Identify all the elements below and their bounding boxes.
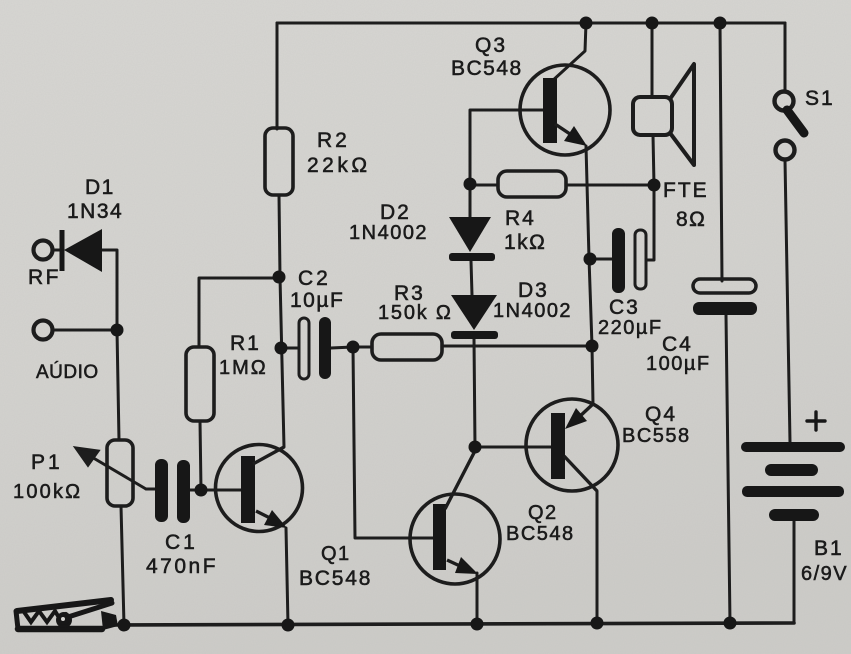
wire AUDIO node down to P1 top [117, 330, 119, 440]
wire rail corner down to S1 [784, 23, 787, 92]
svg-text:C2: C2 [298, 267, 331, 290]
battery B1 plate 3 (long) [742, 486, 844, 497]
battery B1 plate 4 (short, -) [769, 509, 819, 521]
terminal AUDIO [34, 321, 53, 340]
resistor R3 [372, 334, 442, 360]
svg-text:1N34: 1N34 [67, 200, 123, 223]
wire rail down to C4 top plate [720, 23, 722, 281]
Q3 emitter arrow [564, 126, 587, 146]
battery plus sign [807, 412, 825, 430]
svg-text:AÚDIO: AÚDIO [36, 361, 99, 383]
svg-text:1MΩ: 1MΩ [219, 357, 268, 379]
battery B1 plate 1 (long, +) [741, 442, 845, 452]
wire Q1 emitter down to ground [286, 528, 288, 625]
speaker FTE cone [670, 64, 694, 165]
Q4 emitter lead [578, 404, 593, 418]
node R2/R1/C2/Q1-collector [273, 271, 286, 284]
svg-text:D2: D2 [380, 201, 411, 224]
wire R1 bottom to C1/Q1-base node [200, 421, 201, 490]
node AUDIO/D1 [111, 324, 124, 337]
wire D2 cathode to D3 anode [471, 261, 472, 295]
svg-text:470nF: 470nF [146, 555, 218, 578]
diode D2 triangle [449, 217, 491, 252]
svg-text:Q4: Q4 [645, 403, 677, 426]
wire rail to speaker top [651, 23, 654, 97]
svg-text:100µF: 100µF [646, 353, 711, 375]
alligator clip tail to ground rail [101, 611, 118, 630]
svg-text:BC548: BC548 [451, 57, 523, 80]
svg-text:R2: R2 [317, 129, 350, 152]
alligator clip lower jaw [18, 626, 102, 633]
wire C3 right plate up to speaker node [646, 185, 654, 260]
svg-text:1N4002: 1N4002 [493, 300, 572, 322]
alligator clip upper jaw [17, 600, 111, 611]
wire Q3 emitter column down to Q4 emitter [586, 146, 593, 404]
Q2 body circle [410, 494, 500, 584]
wire D1 anode right and down to AUDIO node [102, 250, 117, 330]
wire S1 bottom to battery plus [785, 160, 790, 442]
Q3 emitter lead [555, 124, 570, 134]
svg-text:BC558: BC558 [622, 425, 691, 447]
wire node to R4 left lead [470, 184, 498, 187]
svg-text:22kΩ: 22kΩ [307, 154, 371, 177]
wire Q3 collector to rail [551, 23, 586, 82]
svg-text:D3: D3 [518, 279, 549, 302]
transistor Q1 [216, 445, 303, 532]
wire node R2-bottom to R1 top [199, 278, 279, 347]
svg-text:Q3: Q3 [475, 34, 507, 57]
ground node Q2 [471, 618, 484, 631]
svg-text:R1: R1 [230, 332, 261, 355]
svg-text:RF: RF [28, 266, 61, 289]
svg-text:S1: S1 [805, 87, 835, 110]
wire node down and right to Q2 base [353, 347, 433, 538]
svg-text:C1: C1 [165, 531, 198, 554]
svg-text:6/9V: 6/9V [801, 563, 848, 585]
wire Q4 collector down to ground [596, 491, 599, 623]
Q2 emitter arrow [455, 557, 478, 574]
alligator clip handle [68, 603, 112, 617]
wire P1 bottom to ground [121, 506, 124, 625]
wire speaker bottom to node [653, 135, 654, 185]
switch S1 top contact [775, 92, 794, 111]
wire stub node to C3 left plate [590, 258, 612, 261]
diode D1 cathode bar [60, 230, 65, 271]
Q4 body circle [526, 399, 618, 491]
wire battery minus to ground rail [793, 521, 796, 623]
wire node to Q1 base [201, 489, 241, 492]
wire RF terminal to D1 cathode [53, 249, 60, 252]
wire C1 right plate to node [188, 489, 201, 492]
node R3/emitter column [586, 340, 599, 353]
Q4 collector lead [564, 456, 597, 491]
Q2 emitter lead [447, 560, 460, 566]
resistor R2 [265, 128, 293, 195]
resistor R4 [498, 171, 566, 197]
wire Q3 base to D2/R4 column [470, 110, 543, 184]
wire D3 cathode down to Q4-base node [474, 339, 475, 447]
node rail/C4 [714, 17, 727, 30]
wire Q2 emitter down to ground [476, 573, 479, 624]
svg-text:10µF: 10µF [290, 289, 344, 312]
svg-text:R4: R4 [505, 207, 536, 230]
transistor Q4 (PNP) [526, 399, 618, 491]
diode D3 cathode bar [451, 331, 498, 339]
svg-text:1N4002: 1N4002 [349, 222, 428, 244]
potentiometer P1 body [107, 440, 133, 506]
capacitor C1 right plate [177, 460, 190, 523]
wire rail left corner down to R2 top [276, 23, 279, 129]
wire P1 wiper tail to C1 left plate [146, 488, 156, 491]
ground rail [112, 623, 794, 625]
node R4/speaker/C3 [648, 179, 661, 192]
capacitor C3 right plate (outline) [635, 230, 646, 289]
svg-text:P1: P1 [31, 451, 63, 474]
alligator clip hinge [58, 614, 71, 627]
svg-text:BC548: BC548 [299, 567, 372, 590]
svg-text:100kΩ: 100kΩ [13, 481, 82, 503]
wire node to D2 anode [469, 184, 472, 217]
capacitor C4 bottom plate (solid) [693, 302, 757, 315]
battery B1 plate 2 (short) [765, 464, 818, 476]
diode D2 cathode bar [449, 253, 495, 261]
node C2/R3/Q2-base [347, 341, 360, 354]
alligator clip nose [16, 611, 18, 629]
svg-text:FTE: FTE [663, 179, 709, 202]
wire stub node to C2 left plate [281, 347, 299, 350]
terminal RF [34, 241, 53, 260]
Q4 emitter arrow (PNP, into base) [565, 408, 587, 429]
Q1 emitter lead [256, 511, 270, 518]
node C3/emitter column [584, 253, 597, 266]
node rail/Q3 collector [580, 17, 593, 30]
wire R3 right lead to emitter-column node [442, 345, 592, 348]
wire C4 bottom plate to ground rail [726, 315, 730, 623]
speaker FTE frame [633, 97, 672, 135]
capacitor C1 left plate [155, 459, 168, 522]
wire C2 right plate to R3 node [331, 347, 353, 348]
Q2 collector lead [445, 447, 477, 509]
switch S1 bottom contact [776, 141, 795, 160]
svg-text:150k Ω: 150k Ω [378, 302, 453, 324]
svg-text:220µF: 220µF [598, 317, 663, 339]
transistor Q3 [520, 65, 610, 155]
ground node P1 [118, 619, 131, 632]
capacitor C2 right plate (solid) [319, 317, 331, 379]
wire AUDIO terminal to node [53, 329, 117, 332]
Q1 emitter arrow [264, 510, 287, 528]
Q1 base bar [241, 456, 255, 523]
node rail/speaker [646, 17, 659, 30]
diode D3 triangle [451, 295, 497, 330]
wire R4 right lead to speaker node [566, 184, 654, 187]
wire top supply rail [277, 22, 785, 25]
svg-text:B1: B1 [814, 537, 844, 560]
ground node C4 [724, 617, 737, 630]
svg-text:8Ω: 8Ω [676, 208, 706, 231]
switch S1 lever [787, 110, 804, 133]
node Q3-base/D2/R4 [464, 178, 477, 191]
ground node Q1 [282, 619, 295, 632]
Q1 collector lead [253, 447, 284, 464]
wire R2 bottom to Q1 collector column [279, 195, 284, 447]
alligator clip teeth [24, 611, 66, 622]
svg-text:BC548: BC548 [506, 523, 575, 545]
capacitor C2 left plate (outline) [299, 318, 309, 379]
ground node Q4 [591, 617, 604, 630]
Q3 body circle [520, 65, 610, 155]
svg-text:1kΩ: 1kΩ [504, 231, 546, 254]
svg-text:D1: D1 [85, 176, 115, 199]
diode D1 triangle [64, 229, 102, 272]
potentiometer P1 wiper arrow [76, 448, 146, 489]
wire node to R3 left lead [353, 346, 372, 349]
svg-text:Q2: Q2 [528, 502, 558, 524]
svg-text:Q1: Q1 [321, 543, 351, 565]
resistor R1 [186, 347, 214, 421]
node R1/C1/Q1-base [195, 484, 208, 497]
svg-text:C3: C3 [609, 296, 640, 319]
node C2 left stub [275, 342, 288, 355]
Q3 base bar [543, 78, 557, 143]
Q4 base bar [551, 413, 565, 479]
wire node to Q4 base [475, 446, 551, 449]
Q2 base bar [433, 504, 446, 570]
capacitor C3 left plate (solid) [612, 228, 625, 293]
capacitor C4 top plate (outline) [693, 279, 756, 293]
transistor Q2 [410, 447, 500, 584]
Q1 body circle [216, 445, 303, 532]
node D3/Q4-base/Q2-collector [469, 441, 482, 454]
